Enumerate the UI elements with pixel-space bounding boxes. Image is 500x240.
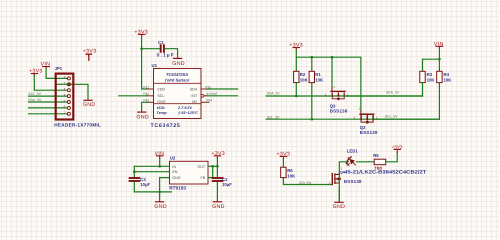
supply VIN (header pin 1) (41, 62, 51, 69)
resistor R5 (374, 159, 386, 165)
svg-text:GND: GND (172, 61, 185, 67)
wire +3V3 to R6 (282, 159, 284, 168)
junction FB/OUT (211, 165, 214, 168)
svg-text:GND: GND (333, 204, 346, 210)
capacitor C2 (213, 178, 223, 181)
pin 7 circle (67, 112, 70, 115)
svg-text:45-21/LK2C-B38452C4CB2/2T: 45-21/LK2C-B38452C4CB2/2T (344, 170, 426, 176)
supply VIN (level shifter) (434, 41, 444, 48)
svg-text:10µF: 10µF (222, 182, 232, 187)
ground GND (U1) (136, 112, 149, 120)
junction VIN/IN (158, 165, 161, 168)
wire VIN down (159, 158, 161, 167)
resistor R2 (294, 71, 299, 82)
wire LED to R5 (357, 161, 375, 163)
svg-text:SDA_5V: SDA_5V (386, 91, 400, 95)
divider specs (154, 103, 202, 105)
wire FB loop (208, 166, 213, 177)
ground GND (Q4) (333, 202, 346, 210)
svg-text:ƒ-55~125°C: ƒ-55~125°C (178, 111, 198, 115)
SECTION: level shifter (266, 41, 452, 135)
wire Q4 drain to LED (339, 162, 348, 202)
svg-text:P$5: P$5 (205, 85, 211, 89)
svg-text:R2: R2 (300, 72, 306, 77)
svg-text:10K: 10K (444, 78, 453, 83)
supply +3V3 (regulator out) (211, 151, 225, 158)
supply +3V3 (floating) (83, 49, 97, 61)
svg-text:R1: R1 (315, 72, 321, 77)
junction pin2 (68, 83, 71, 86)
wire Q3 gate (331, 57, 333, 88)
wire R2 bottom to SDA (295, 83, 297, 96)
svg-text:2.7-5.5V: 2.7-5.5V (177, 106, 192, 110)
svg-text:GND: GND (212, 204, 225, 210)
ground GND (C1) (172, 58, 185, 66)
svg-text:GND: GND (157, 100, 166, 104)
junction C1 branch (140, 47, 143, 50)
pin stub NC (201, 101, 209, 103)
pin bubble INT (201, 94, 204, 97)
svg-text:R5: R5 (373, 153, 379, 158)
wire U2 GND pin down (160, 178, 170, 192)
svg-text:0.1µF: 0.1µF (157, 53, 175, 58)
ground GND (C2) (212, 202, 225, 210)
svg-text:GND: GND (154, 204, 167, 210)
capacitor C1 (161, 45, 164, 52)
pin stub INT (204, 95, 207, 97)
svg-text:JP1: JP1 (55, 66, 63, 71)
wire R4 bottom to SCL_5V (438, 83, 440, 120)
svg-text:ƒoInt Sensor: ƒoInt Sensor (165, 78, 190, 83)
wire R2 top (295, 57, 297, 71)
resistor R4 (437, 71, 442, 82)
wire SDA right (207, 88, 238, 90)
wire OUT row (208, 165, 217, 167)
pin 4 circle (67, 95, 70, 98)
wire C1 to GND (165, 49, 178, 58)
wire SCL_5V row (373, 118, 439, 120)
pin stub GND (147, 101, 154, 103)
svg-text:10K: 10K (287, 173, 296, 178)
wire +3V3 to OUT (216, 158, 218, 167)
svg-text:VDD:: VDD: (157, 106, 167, 110)
svg-text:TC634725: TC634725 (151, 123, 181, 129)
svg-text:1: 1 (359, 107, 361, 110)
svg-text:R6: R6 (287, 168, 293, 173)
supply +3V3 (sensor) (134, 29, 148, 36)
wire VIN to pin1 (46, 68, 67, 78)
junction R1 rail (311, 56, 314, 59)
resistor R1 (309, 71, 314, 82)
pin 2 circle (67, 83, 70, 86)
transistor Q4 (332, 174, 341, 185)
wire R6 to Q4 gate (283, 178, 331, 185)
ground GND (U2) (154, 202, 167, 210)
wire C2 top (216, 166, 218, 177)
svg-text:P$4: P$4 (206, 99, 212, 103)
ground GND (header) (83, 100, 96, 108)
svg-text:10µF: 10µF (140, 182, 150, 187)
svg-text:INT: INT (191, 94, 198, 98)
junction Q3 gate rail (331, 56, 334, 59)
svg-text:GND: GND (83, 102, 96, 108)
svg-text:10K: 10K (300, 78, 309, 83)
svg-text:U1: U1 (152, 63, 158, 68)
wire SCL_3V row (266, 118, 439, 120)
SECTION: sensor U1 (119, 29, 238, 129)
wire IN row (134, 165, 169, 167)
wire VIN rail (423, 49, 440, 72)
IC U1 box (154, 69, 202, 119)
wire SDA_3V row (266, 95, 422, 97)
SECTION: header JP1 (28, 49, 101, 128)
SECTION: regulator U2 (130, 151, 233, 210)
pin stub SCL (147, 95, 154, 97)
junction R2 SDA (295, 95, 298, 98)
pin stub SDA (201, 88, 207, 90)
junction GND rail (158, 191, 161, 194)
svg-text:C1: C1 (158, 40, 164, 45)
svg-text:R3: R3 (427, 72, 433, 77)
wire R3 bottom to SDA_5V (422, 83, 424, 96)
wire R1 top (311, 57, 313, 71)
svg-text:LED_EN: LED_EN (299, 181, 312, 185)
pin 5 circle (67, 101, 70, 104)
svg-text:3V3/INT: 3V3/INT (206, 92, 218, 96)
divider title (154, 82, 202, 84)
wire INT right (207, 95, 238, 97)
wire C3 top (133, 166, 135, 177)
supply +3V3 (level shifter) (289, 43, 303, 50)
svg-text:FB: FB (200, 176, 205, 180)
wire Q4 source to GND (338, 187, 340, 201)
pin 3 circle (67, 89, 70, 92)
supply VIN (regulator) (155, 151, 165, 158)
wire EN row (134, 171, 169, 173)
svg-text:10K: 10K (315, 78, 324, 83)
wire SCL long (119, 95, 147, 97)
svg-text:BSS138: BSS138 (330, 109, 348, 114)
svg-text:VDD: VDD (157, 88, 165, 92)
wire +3V3 to pin3 (34, 76, 67, 91)
svg-text:SDA_3V: SDA_3V (267, 91, 281, 95)
svg-text:IN: IN (172, 165, 176, 169)
svg-text:BSS138: BSS138 (360, 130, 378, 135)
svg-text:LED1: LED1 (347, 148, 359, 153)
junction R1 SCL (311, 118, 314, 121)
svg-text:HEADER-1X770MIL: HEADER-1X770MIL (54, 122, 101, 127)
supply +3V3 (header pin 3) (29, 68, 43, 75)
svg-text:RT9193: RT9193 (169, 186, 186, 191)
svg-text:GND: GND (136, 114, 149, 120)
svg-text:TBD: TBD (374, 167, 382, 171)
resistor R6 (281, 167, 286, 177)
svg-text:10K: 10K (427, 78, 436, 83)
svg-text:U2: U2 (170, 156, 176, 161)
svg-text:1: 1 (334, 86, 336, 89)
junction OUT/C2 (216, 165, 219, 168)
wire R5 to +3V3 (386, 152, 398, 162)
wire +3V3 rail (296, 50, 361, 111)
wire pin2 to GND (70, 84, 88, 100)
wire GND drop (159, 192, 161, 201)
connector JP1 box (56, 74, 74, 120)
pin 1 circle (67, 77, 70, 80)
svg-text:NC: NC (192, 100, 198, 104)
wire branch to C1 (142, 48, 160, 50)
svg-text:BSS138: BSS138 (344, 179, 362, 184)
wire to pin7 (29, 113, 68, 115)
svg-text:P$1: P$1 (143, 85, 149, 89)
pin 6 circle (67, 106, 70, 109)
SECTION: led driver (277, 144, 427, 210)
supply +3V3 (R5) (392, 144, 403, 152)
svg-text:R4: R4 (444, 72, 450, 77)
wire +3V3 down to VDD (142, 37, 147, 89)
capacitor C3 (130, 178, 140, 181)
svg-text:EN: EN (172, 170, 177, 174)
svg-text:TC634725A: TC634725A (166, 72, 188, 77)
wire C2 bottom (216, 182, 218, 201)
transistor Q3 (331, 88, 345, 100)
svg-text:SCL: SCL (157, 94, 164, 98)
transistor Q2 (360, 111, 374, 124)
wire net SDA_3V to pin5 (29, 101, 68, 103)
junction VIN rail (438, 58, 441, 61)
svg-text:OUT: OUT (197, 165, 206, 169)
wire C3 bottom to GND rail (134, 182, 171, 192)
svg-text:Temp:: Temp: (157, 111, 169, 115)
svg-text:+3V3: +3V3 (392, 144, 403, 149)
wire R1 bottom to SCL (311, 83, 313, 120)
wire pin2 internal (57, 83, 68, 85)
svg-text:SCL_5V: SCL_5V (385, 115, 398, 119)
svg-text:GND: GND (172, 176, 181, 180)
IC U2 box (170, 161, 209, 184)
wire net SCL_3V to pin4 (29, 95, 68, 97)
svg-text:SDA: SDA (190, 88, 198, 92)
svg-text:P$3: P$3 (143, 99, 149, 103)
wire GND pin drop (142, 102, 147, 111)
wire to pin6 (29, 107, 68, 109)
supply +3V3 (R6) (277, 151, 291, 158)
pin stub VDD (147, 88, 154, 90)
diode LED1 (344, 156, 357, 169)
junction EN (133, 170, 136, 173)
resistor R3 (420, 71, 425, 82)
svg-text:P$2: P$2 (143, 92, 149, 96)
wire SDA_5V row (344, 95, 422, 97)
